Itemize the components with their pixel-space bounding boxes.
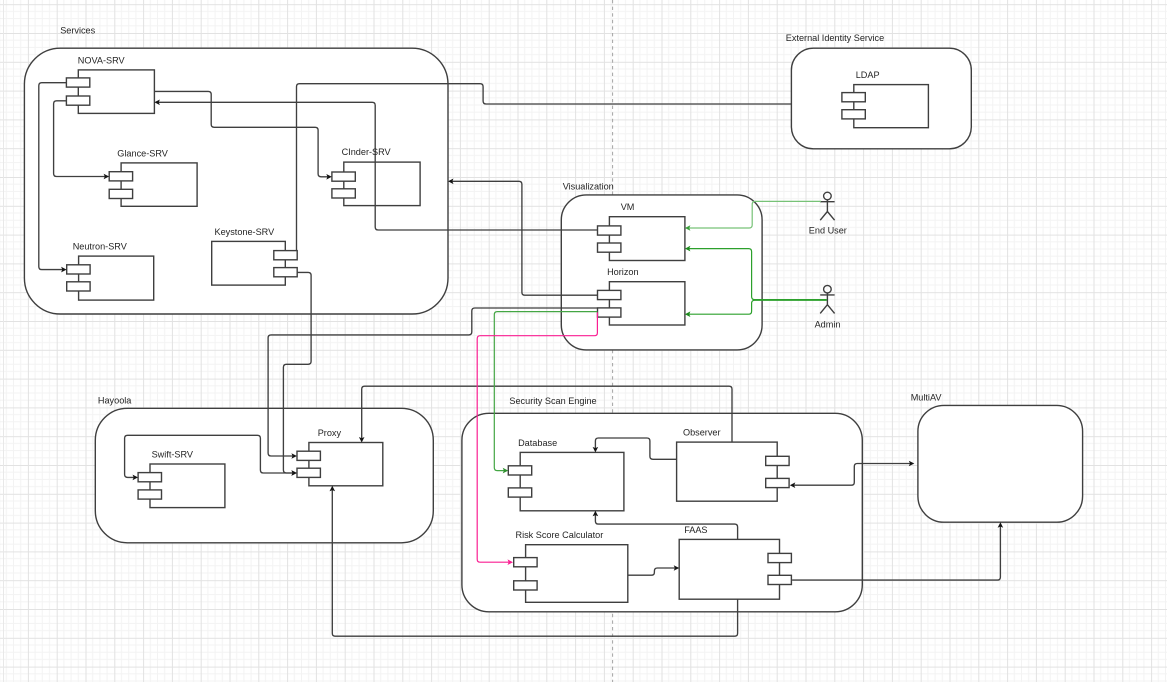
svg-text:Admin: Admin bbox=[815, 320, 841, 330]
svg-text:Keystone-SRV: Keystone-SRV bbox=[215, 227, 276, 237]
svg-text:Proxy: Proxy bbox=[318, 428, 342, 438]
svg-text:MultiAV: MultiAV bbox=[911, 392, 943, 402]
svg-text:Hayoola: Hayoola bbox=[98, 396, 132, 406]
svg-text:Services: Services bbox=[60, 25, 95, 35]
svg-text:FAAS: FAAS bbox=[684, 525, 707, 535]
svg-text:Database: Database bbox=[518, 438, 557, 448]
svg-text:Risk Score Calculator: Risk Score Calculator bbox=[516, 530, 604, 540]
svg-text:Swift-SRV: Swift-SRV bbox=[152, 450, 194, 460]
svg-text:End User: End User bbox=[809, 226, 847, 236]
svg-text:Horizon: Horizon bbox=[607, 267, 638, 277]
svg-text:Observer: Observer bbox=[683, 428, 721, 438]
svg-text:NOVA-SRV: NOVA-SRV bbox=[78, 55, 126, 65]
svg-text:CInder-SRV: CInder-SRV bbox=[342, 147, 392, 157]
svg-text:Neutron-SRV: Neutron-SRV bbox=[73, 242, 128, 252]
svg-text:Security Scan Engine: Security Scan Engine bbox=[509, 396, 596, 406]
svg-text:Glance-SRV: Glance-SRV bbox=[117, 148, 168, 158]
svg-text:Visualization: Visualization bbox=[563, 182, 614, 192]
svg-text:External Identity Service: External Identity Service bbox=[786, 33, 884, 43]
svg-text:VM: VM bbox=[621, 202, 635, 212]
svg-text:LDAP: LDAP bbox=[856, 70, 880, 80]
